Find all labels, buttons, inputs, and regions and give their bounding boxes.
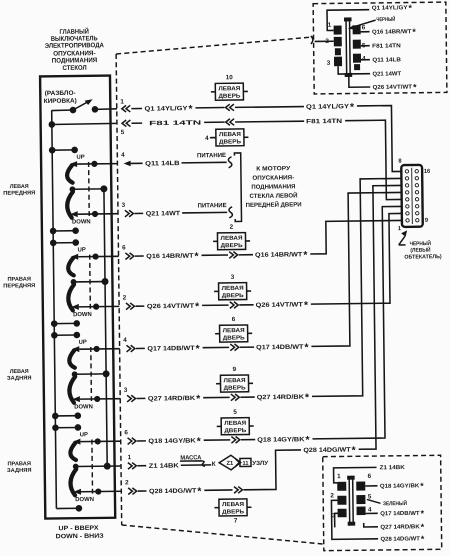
svg-text:ЛЕВАЯ: ЛЕВАЯ: [10, 369, 29, 375]
svg-text:ПРАВАЯ: ПРАВАЯ: [7, 277, 31, 283]
connector box left door 5: [217, 409, 254, 435]
svg-text:10: 10: [226, 74, 234, 81]
svg-text:КИРОВКА): КИРОВКА): [44, 98, 77, 105]
bracket to motor: [234, 153, 241, 222]
svg-text:UP: UP: [79, 340, 87, 346]
main window switch box: [40, 76, 115, 519]
svg-text:СТЕКОЛ: СТЕКОЛ: [62, 65, 87, 72]
svg-text:F81 14TN: F81 14TN: [372, 43, 401, 49]
svg-text:3: 3: [327, 60, 331, 67]
svg-text:DOWN - ВНИЗ: DOWN - ВНИЗ: [56, 533, 104, 541]
svg-text:К: К: [212, 461, 216, 468]
svg-text:ДВЕРЬ: ДВЕРЬ: [223, 335, 245, 341]
wire Q18 inset: [365, 485, 377, 487]
svg-text:2: 2: [325, 38, 329, 45]
svg-text:1: 1: [120, 98, 124, 105]
wire Q16 row: [122, 220, 403, 263]
svg-text:Q1 14YL/GY: Q1 14YL/GY: [372, 5, 408, 11]
svg-text:ПИТАНИЕ: ПИТАНИЕ: [197, 152, 226, 159]
svg-text:(ЛЕВЫЙ: (ЛЕВЫЙ: [410, 246, 430, 254]
svg-text:Q17 14DB/WT: Q17 14DB/WT: [256, 344, 304, 352]
svg-text:ДВЕРЬ: ДВЕРЬ: [224, 428, 246, 434]
svg-text:UP - ВВЕРХ: UP - ВВЕРХ: [59, 525, 100, 532]
svg-text:UP: UP: [78, 247, 86, 253]
wire Q11 inset: [361, 59, 370, 61]
svg-text:Z1 14BK: Z1 14BK: [149, 462, 180, 469]
wire Q11 row: [121, 150, 232, 169]
svg-text:Q26 14VT/WT: Q26 14VT/WT: [373, 84, 413, 90]
svg-text:ЛЕВАЯ: ЛЕВАЯ: [222, 286, 244, 292]
wire Q28 inset: [331, 500, 378, 540]
svg-text:2: 2: [123, 294, 127, 301]
svg-text:3: 3: [231, 274, 235, 281]
connector box left door 6: [215, 316, 252, 342]
svg-text:ЛЕВАЯ: ЛЕВАЯ: [222, 502, 244, 508]
wire Q17 row: [122, 192, 404, 356]
svg-text:4: 4: [205, 135, 209, 142]
wire Q27 row: [121, 178, 404, 406]
svg-text:ЗАДНЯЯ: ЗАДНЯЯ: [7, 468, 32, 474]
svg-text:ПОДНИМАНИЯ: ПОДНИМАНИЯ: [52, 57, 98, 65]
rocker switch LR: [51, 331, 121, 419]
wire Q21 row: [122, 201, 233, 220]
svg-text:4: 4: [121, 152, 125, 159]
svg-text:Q11 14LB: Q11 14LB: [372, 57, 401, 63]
svg-text:ПРАВАЯ: ПРАВАЯ: [7, 461, 31, 467]
connector box left door 7: [214, 499, 251, 525]
label green: [367, 499, 381, 503]
svg-text:5: 5: [368, 493, 372, 500]
wire F81 inset: [361, 45, 370, 47]
svg-text:Q17 14DB/WT: Q17 14DB/WT: [147, 345, 195, 353]
svg-text:DOWN: DOWN: [72, 219, 91, 225]
svg-text:(РАЗБЛО-: (РАЗБЛО-: [45, 90, 76, 97]
svg-text:Q18 14GY/BK: Q18 14GY/BK: [148, 437, 196, 445]
rocker switch LF: [49, 146, 119, 234]
ground symbol MASSA: [180, 454, 205, 466]
svg-text:ГЛАВНЫЙ: ГЛАВНЫЙ: [59, 27, 89, 36]
connector black left cowl 16-pin: [397, 158, 432, 232]
pointer to 16-pin connector: [399, 230, 442, 261]
main switch title: [44, 26, 104, 72]
svg-text:6: 6: [362, 24, 366, 31]
wire Q16 inset: [361, 31, 370, 33]
svg-text:DOWN: DOWN: [73, 312, 92, 318]
svg-text:UP: UP: [80, 432, 88, 438]
connector box left door 2: [213, 224, 250, 250]
svg-text:ПИТАНИЕ: ПИТАНИЕ: [198, 202, 227, 209]
label to motor left front door: [245, 166, 301, 209]
svg-text:4: 4: [368, 506, 372, 513]
svg-text:ЛЕВАЯ: ЛЕВАЯ: [218, 86, 240, 92]
wire Q21 inset: [338, 66, 370, 74]
dashed harness boundary left: [116, 54, 122, 525]
svg-text:5: 5: [233, 409, 237, 416]
svg-text:6: 6: [122, 244, 126, 251]
switch position labels: [2, 184, 39, 474]
connector box left door 3: [214, 274, 251, 300]
svg-text:Q18 14GY/BK: Q18 14GY/BK: [380, 483, 420, 489]
svg-text:F81 14TN: F81 14TN: [149, 120, 202, 128]
svg-text:ЛЕВАЯ: ЛЕВАЯ: [223, 328, 245, 334]
svg-text:3: 3: [332, 512, 336, 519]
svg-text:7: 7: [234, 517, 238, 524]
svg-text:1: 1: [128, 454, 132, 461]
svg-text:ДВЕРЬ: ДВЕРЬ: [219, 139, 241, 145]
wire Q1 inset: [327, 10, 370, 31]
svg-text:ЛЕВАЯ: ЛЕВАЯ: [10, 184, 29, 190]
svg-text:F81 14TN: F81 14TN: [306, 118, 343, 125]
svg-text:Q26 14VT/WT: Q26 14VT/WT: [256, 301, 304, 309]
wire Q28 row: [122, 185, 406, 498]
svg-text:Q27 14RD/BK: Q27 14RD/BK: [148, 395, 196, 403]
svg-text:5: 5: [121, 129, 125, 136]
svg-text:Q16 14BR/WT: Q16 14BR/WT: [146, 253, 194, 261]
svg-text:ДВЕРЬ: ДВЕРЬ: [224, 385, 246, 391]
svg-text:DOWN: DOWN: [74, 404, 93, 410]
svg-text:ЛЕВАЯ: ЛЕВАЯ: [220, 236, 242, 242]
inset detail connector black (switch): [310, 2, 446, 94]
svg-text:ПЕРЕДНЯЯ: ПЕРЕДНЯЯ: [3, 283, 35, 289]
svg-text:ЛЕВАЯ: ЛЕВАЯ: [224, 421, 246, 427]
wire Q26 inset: [349, 74, 370, 87]
svg-text:Q16 14BR/WT: Q16 14BR/WT: [372, 29, 412, 35]
svg-text:Q21 14WT: Q21 14WT: [146, 210, 181, 217]
wire Z1 inset: [334, 467, 377, 483]
svg-text:3: 3: [124, 387, 128, 394]
wire Z1 row ground: [128, 453, 212, 470]
wire Q27 inset: [364, 523, 378, 527]
label black: [352, 20, 376, 27]
svg-text:DOWN: DOWN: [75, 497, 94, 503]
svg-text:ПОДНИМАНИЯ: ПОДНИМАНИЯ: [251, 184, 295, 191]
svg-text:4: 4: [123, 337, 127, 344]
svg-text:ПЕРЕДНЯЯ: ПЕРЕДНЯЯ: [3, 190, 35, 196]
svg-text:Z1: Z1: [226, 461, 234, 467]
dashed harness boundary top: [116, 37, 313, 54]
svg-text:5: 5: [362, 42, 366, 49]
svg-text:ДВЕРЬ: ДВЕРЬ: [222, 293, 244, 299]
svg-text:Q27 14RD/BK: Q27 14RD/BK: [380, 524, 420, 530]
svg-text:ОБТЕКАТЕЛЬ): ОБТЕКАТЕЛЬ): [404, 254, 442, 260]
svg-text:3: 3: [122, 202, 126, 209]
inset detail connector green (rear doors): [323, 455, 442, 550]
dashed harness boundary bottom: [122, 523, 323, 547]
svg-text:ЧЕРНЫЙ: ЧЕРНЫЙ: [410, 239, 432, 247]
svg-text:Q18 14GY/BK: Q18 14GY/BK: [257, 436, 305, 444]
svg-text:Q1 14YL/GY: Q1 14YL/GY: [306, 103, 350, 111]
svg-text:Q11 14LB: Q11 14LB: [145, 160, 180, 167]
svg-text:UP: UP: [76, 155, 84, 161]
svg-text:Z1 14BK: Z1 14BK: [380, 465, 406, 471]
svg-text:Q27 14RD/BK: Q27 14RD/BK: [257, 394, 305, 402]
wire Q18 row: [122, 206, 405, 448]
svg-text:2: 2: [330, 492, 334, 499]
svg-text:ОПУСКАНИЯ-: ОПУСКАНИЯ-: [252, 175, 294, 181]
wire F81 from bus: [49, 120, 118, 127]
svg-text:1: 1: [337, 473, 341, 480]
svg-text:Q26 14VT/WT: Q26 14VT/WT: [147, 303, 195, 311]
legend up/down: [56, 525, 104, 541]
wire entry pin2: [315, 40, 334, 42]
svg-text:ДВЕРЬ: ДВЕРЬ: [221, 243, 243, 249]
svg-text:ЗАДНЯЯ: ЗАДНЯЯ: [7, 375, 32, 381]
wire F81 row: [121, 117, 402, 203]
connector box left door 4: [205, 129, 248, 146]
wire Q17 inset: [366, 512, 378, 514]
connector box left door 9: [216, 366, 253, 392]
svg-text:Q28 14DG/WT: Q28 14DG/WT: [303, 447, 351, 455]
left bus wire: [52, 110, 57, 508]
svg-text:ДВЕРЬ: ДВЕРЬ: [222, 509, 244, 515]
inner common bus wire: [104, 189, 107, 466]
svg-text:11: 11: [242, 461, 248, 467]
wire Q26 row: [122, 213, 403, 313]
rocker switch RF: [50, 239, 120, 327]
svg-text:ДВЕРЬ: ДВЕРЬ: [218, 94, 240, 100]
svg-text:Q17 14DB/WT: Q17 14DB/WT: [380, 511, 420, 517]
svg-text:6: 6: [124, 429, 128, 436]
svg-text:6: 6: [232, 316, 236, 323]
svg-text:ЛЕВАЯ: ЛЕВАЯ: [223, 378, 245, 384]
svg-text:ЧЕРНЫЙ: ЧЕРНЫЙ: [376, 15, 395, 23]
svg-text:6: 6: [368, 473, 372, 480]
svg-text:Q28 14DG/WT: Q28 14DG/WT: [149, 488, 197, 496]
svg-text:2: 2: [125, 479, 129, 486]
rocker switch RR: [52, 424, 122, 512]
lock switch label: [44, 90, 77, 105]
svg-text:4: 4: [362, 55, 366, 62]
lock switch lever: [70, 99, 117, 113]
svg-text:2: 2: [230, 224, 234, 231]
svg-text:Q16 14BR/WT: Q16 14BR/WT: [255, 251, 303, 259]
svg-text:ЛЕВАЯ: ЛЕВАЯ: [219, 132, 241, 138]
wire bus-lever: [52, 109, 73, 112]
svg-text:Q28 14DG/WT: Q28 14DG/WT: [380, 536, 420, 542]
svg-text:Q1 14YL/GY: Q1 14YL/GY: [144, 105, 188, 113]
svg-text:УЗЛУ: УЗЛУ: [252, 461, 268, 467]
svg-text:1: 1: [328, 22, 332, 29]
connector body: [334, 17, 362, 77]
svg-text:ЭЛЕКТРОПРИВОДА: ЭЛЕКТРОПРИВОДА: [45, 42, 104, 50]
wire Q1 row: [120, 95, 401, 175]
connector box left door 10: [211, 74, 248, 100]
connector body: [337, 475, 366, 525]
svg-text:9: 9: [233, 366, 237, 373]
svg-text:16: 16: [424, 169, 431, 175]
splice node Z1-11: [212, 455, 269, 470]
svg-text:Q21 14WT: Q21 14WT: [372, 71, 401, 77]
svg-text:К МОТОРУ: К МОТОРУ: [256, 166, 290, 172]
